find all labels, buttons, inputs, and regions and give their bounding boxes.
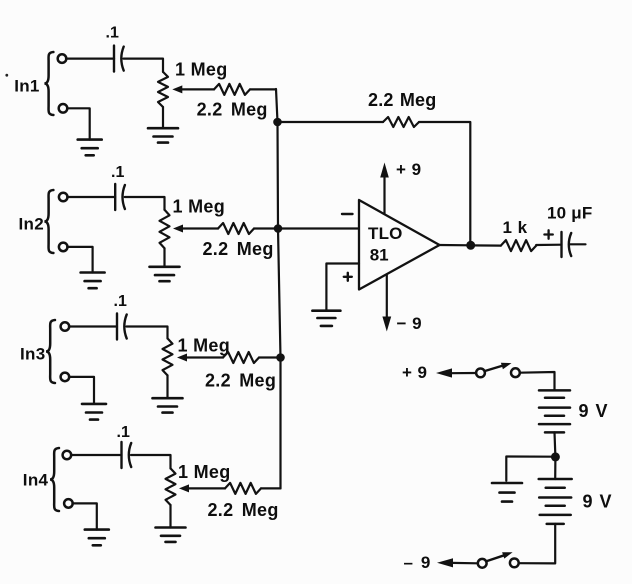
wire +9 rail to switch S1 xyxy=(451,372,476,374)
ground (pot R3) xyxy=(153,398,183,412)
svg-text:9 V: 9 V xyxy=(583,492,613,512)
label In4 xyxy=(23,471,49,490)
svg-text:– 9: – 9 xyxy=(404,553,432,572)
svg-text:+ 9: + 9 xyxy=(396,160,422,179)
wire Rs1 to bus xyxy=(250,88,276,90)
jack J3b (In3 ground terminal) xyxy=(61,373,70,382)
wire wiper to Rs1 xyxy=(181,88,214,90)
svg-text:9 V: 9 V xyxy=(579,401,609,421)
wiper arrow R3 xyxy=(177,354,187,362)
jack J2b (In2 ground terminal) xyxy=(59,243,68,252)
label 1 Meg (R4) xyxy=(178,462,231,482)
node junction bus/feedback xyxy=(273,118,282,127)
label In3 xyxy=(20,345,45,364)
jack J1b (In1 ground terminal) xyxy=(59,104,68,113)
wire Rs2 to op-amp inverting input xyxy=(254,227,359,229)
wire wiper to Rs2 xyxy=(182,227,218,229)
svg-text:TLO: TLO xyxy=(368,224,403,243)
svg-text:1 k: 1 k xyxy=(503,218,528,237)
svg-text:1 Meg: 1 Meg xyxy=(173,197,226,217)
potentiometer R4 1 Meg xyxy=(166,468,176,505)
wire C1 to R1 pot xyxy=(124,59,164,72)
resistor Rf 2.2 Meg (feedback) xyxy=(383,117,419,127)
wire J4b to ground xyxy=(72,503,96,529)
wiper arrow R4 xyxy=(179,484,189,492)
label 1 k (R5) xyxy=(503,218,528,237)
wire J1b to ground xyxy=(67,108,90,139)
potentiometer R1 1 Meg xyxy=(158,72,168,107)
wire J2b to ground xyxy=(67,247,92,273)
svg-text:2.2 Meg: 2.2 Meg xyxy=(203,239,274,259)
wire J2a to C2 xyxy=(67,196,115,198)
label 10 uF (C5) xyxy=(547,204,592,223)
svg-text:.1: .1 xyxy=(114,293,127,310)
ground (pot R1) xyxy=(148,128,178,142)
arrow -9 rail (points left) xyxy=(437,558,453,567)
brace In2 xyxy=(44,190,53,253)
wire R5 to C5 xyxy=(536,244,561,247)
svg-text:.1: .1 xyxy=(106,25,119,42)
wiper arrow R1 xyxy=(172,85,182,93)
node output junction xyxy=(466,241,475,250)
wire B1 to center node xyxy=(553,432,556,457)
svg-text:.1: .1 xyxy=(111,164,124,181)
svg-text:− 9: − 9 xyxy=(397,314,423,333)
wire C2 to R2 pot xyxy=(125,197,165,210)
svg-text:2.2 Meg: 2.2 Meg xyxy=(197,100,268,120)
label 1 Meg (R1) xyxy=(175,60,228,80)
svg-text:1 Meg: 1 Meg xyxy=(175,60,228,80)
svg-text:2.2 Meg: 2.2 Meg xyxy=(205,371,276,391)
battery B2 9 V xyxy=(539,479,572,524)
svg-text:2.2 Meg: 2.2 Meg xyxy=(368,90,436,110)
label 9 V (B1) xyxy=(579,401,609,421)
switch S1 pole contact xyxy=(476,369,485,378)
label 2.2 Meg (Rf) xyxy=(368,90,436,110)
jack J1a (In1 hot terminal) xyxy=(58,54,67,63)
label 9 V (B2) xyxy=(583,492,613,512)
label +9 rail xyxy=(402,363,427,382)
wire R2 bottom to ground xyxy=(163,248,165,266)
node junction bus/In2/op-amp xyxy=(274,224,283,233)
jack J3a (In3 hot terminal) xyxy=(61,322,70,331)
wire S1 to battery B1 xyxy=(520,372,555,390)
label 81 (U1) xyxy=(370,246,389,265)
label In1 xyxy=(14,77,39,96)
wiper arrow R2 xyxy=(173,225,183,233)
capacitor C2 .1 xyxy=(115,184,125,210)
label .1 (C3) xyxy=(114,293,127,310)
label 2.2 Meg (Rs3) xyxy=(205,371,276,391)
node center tap junction xyxy=(551,452,560,461)
wire Rs3 to bus xyxy=(259,356,281,358)
jack J2a (In2 hot terminal) xyxy=(59,193,68,202)
brace In4 xyxy=(50,448,59,511)
wire output after C5 xyxy=(569,243,585,245)
capacitor C5 10 uF output xyxy=(562,232,572,257)
wire B2 to switch S2 xyxy=(519,524,555,564)
wire -9 supply pin xyxy=(386,275,388,318)
wire C3 to R3 pot xyxy=(127,327,168,339)
wire center node to battery B2 xyxy=(554,457,556,479)
wire non-inverting input to ground xyxy=(326,264,359,311)
brace In3 xyxy=(46,320,55,383)
switch S1 throw contact xyxy=(511,368,520,377)
label 1 Meg (R3) xyxy=(178,336,231,356)
label .1 (C2) xyxy=(111,164,124,181)
capacitor C1 .1 xyxy=(114,46,124,72)
inverting input minus sign xyxy=(342,213,353,215)
op-amp U1 TLO81 triangle xyxy=(359,200,440,290)
speck xyxy=(5,74,8,77)
resistor Rs2 2.2 Meg xyxy=(218,223,254,234)
arrow -9 supply down xyxy=(382,317,391,332)
label TLO (U1) xyxy=(368,224,403,243)
label 2.2 Meg (Rs1) xyxy=(197,100,268,120)
non-inverting plus sign xyxy=(344,273,352,281)
svg-text:In4: In4 xyxy=(23,471,49,490)
ground (jack In1) xyxy=(78,140,102,156)
svg-text:In2: In2 xyxy=(19,215,44,234)
ground (pot R4) xyxy=(156,528,186,542)
jack J4a (In4 hot terminal) xyxy=(63,451,72,460)
resistor Rs3 2.2 Meg xyxy=(223,352,259,363)
resistor R5 1 k xyxy=(501,240,536,251)
arrow +9 supply up xyxy=(380,163,389,178)
label In2 xyxy=(19,215,44,234)
svg-text:+ 9: + 9 xyxy=(402,363,427,382)
wire wiper to Rs3 xyxy=(186,356,223,358)
svg-text:In1: In1 xyxy=(14,77,39,96)
label .1 (C1) xyxy=(106,25,119,42)
wire R3 bottom to ground xyxy=(166,375,168,398)
ground (pot R2) xyxy=(150,267,180,281)
wire wiper to Rs4 xyxy=(188,487,225,489)
wire J1a to C1 xyxy=(66,57,114,59)
capacitor C4 .1 xyxy=(122,442,132,468)
capacitor C3 .1 xyxy=(117,314,127,340)
label - 9 (V- supply) xyxy=(397,314,423,333)
wire C4 to R4 pot xyxy=(131,455,171,468)
jack J4b (In4 ground terminal) xyxy=(64,499,73,508)
wire R4 bottom to ground xyxy=(169,505,171,528)
svg-text:1 Meg: 1 Meg xyxy=(178,336,231,356)
plus sign (C5 polarity) xyxy=(544,230,552,238)
wire R1 bottom to ground xyxy=(162,107,164,128)
wire feedback left xyxy=(278,121,384,123)
ground (op-amp + input) xyxy=(312,311,340,326)
switch S2 lever xyxy=(487,552,512,561)
svg-text:1 Meg: 1 Meg xyxy=(178,462,231,482)
wire output to R5 xyxy=(471,244,501,246)
wire Rs4 to bus xyxy=(261,487,281,489)
label 2.2 Meg (Rs2) xyxy=(203,239,274,259)
node junction bus/In3 xyxy=(276,353,285,362)
wire J3b to ground xyxy=(69,377,94,404)
switch S2 pole contact xyxy=(478,559,487,568)
resistor Rs1 2.2 Meg xyxy=(214,84,250,95)
ground (jack In4) xyxy=(85,530,109,546)
wire feedback right to output node xyxy=(419,122,470,245)
wire op-amp output xyxy=(440,244,471,247)
resistor Rs4 2.2 Meg xyxy=(225,483,261,494)
wire J3a to C3 xyxy=(69,325,117,327)
wire +9 supply pin xyxy=(383,176,385,214)
svg-text:In3: In3 xyxy=(20,345,45,364)
svg-text:81: 81 xyxy=(370,246,389,265)
label .1 (C4) xyxy=(117,424,130,441)
wire S2 to -9 rail arrow xyxy=(452,562,477,565)
label 2.2 Meg (Rs4) xyxy=(208,500,279,520)
wire summing bus (virtual ground node) xyxy=(276,89,281,488)
potentiometer R2 1 Meg xyxy=(160,210,170,249)
potentiometer R3 1 Meg xyxy=(163,338,173,375)
wire J4a to C4 xyxy=(71,454,122,456)
svg-text:.1: .1 xyxy=(117,424,130,441)
brace In1 xyxy=(44,52,53,115)
switch S2 throw contact xyxy=(510,559,519,568)
ground (jack In2) xyxy=(81,273,105,289)
svg-text:2.2 Meg: 2.2 Meg xyxy=(208,500,279,520)
battery B1 9 V xyxy=(539,390,570,432)
ground (jack In3) xyxy=(82,404,106,420)
switch S1 lever xyxy=(485,363,512,371)
label + 9 (V+ supply) xyxy=(396,160,422,179)
label -9 rail xyxy=(404,553,432,572)
wire center tap to ground xyxy=(506,457,555,481)
svg-text:10 μF: 10 μF xyxy=(547,204,592,223)
arrow +9 rail (points left) xyxy=(436,368,452,377)
label 1 Meg (R2) xyxy=(173,197,226,217)
ground (battery center tap) xyxy=(492,483,522,502)
